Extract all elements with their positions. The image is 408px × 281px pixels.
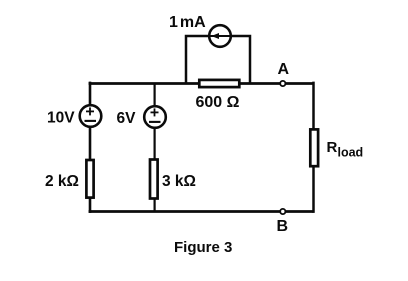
svg-text:6V: 6V bbox=[117, 110, 137, 127]
label 6V bbox=[117, 110, 137, 127]
voltage source V1 10V bbox=[80, 105, 102, 127]
svg-text:load: load bbox=[338, 146, 364, 160]
wire: bottom rail bbox=[89, 210, 314, 213]
svg-text:Figure 3: Figure 3 bbox=[174, 239, 232, 256]
svg-text:10V: 10V bbox=[47, 110, 75, 127]
svg-text:A: A bbox=[278, 61, 290, 78]
label 2 kOhm bbox=[45, 173, 79, 190]
label B bbox=[277, 218, 289, 235]
resistor 600 ohm bbox=[199, 80, 239, 87]
svg-text:R: R bbox=[327, 139, 338, 156]
svg-text:B: B bbox=[277, 218, 289, 235]
label 3 kOhm bbox=[162, 173, 196, 190]
wire: right branch (A to B through Rload) bbox=[312, 82, 315, 213]
node B terminal bbox=[280, 209, 285, 214]
node A terminal bbox=[280, 81, 285, 86]
label Rload bbox=[327, 139, 364, 160]
svg-text:1mA: 1mA bbox=[169, 14, 206, 31]
resistor 2k bbox=[86, 160, 93, 198]
resistor Rload bbox=[310, 129, 318, 166]
wire: top rail bbox=[89, 82, 314, 85]
wire: left branch (10V / 2k) bbox=[89, 82, 92, 213]
voltage source V2 6V bbox=[144, 106, 166, 128]
caption Figure 3 bbox=[174, 239, 232, 256]
wire: middle branch (6V / 3k) bbox=[154, 83, 156, 212]
svg-text:3 kΩ: 3 kΩ bbox=[162, 173, 196, 190]
label 600 ohm bbox=[196, 94, 240, 111]
svg-text:2 kΩ: 2 kΩ bbox=[45, 173, 79, 190]
resistor 3k bbox=[150, 160, 158, 199]
label A bbox=[278, 61, 290, 78]
current source I1 (1 mA) bbox=[209, 25, 231, 47]
label 10V bbox=[47, 110, 75, 127]
svg-text:600 Ω: 600 Ω bbox=[196, 94, 240, 111]
label 1mA bbox=[169, 14, 206, 31]
wire: current-source loop bbox=[186, 36, 250, 84]
